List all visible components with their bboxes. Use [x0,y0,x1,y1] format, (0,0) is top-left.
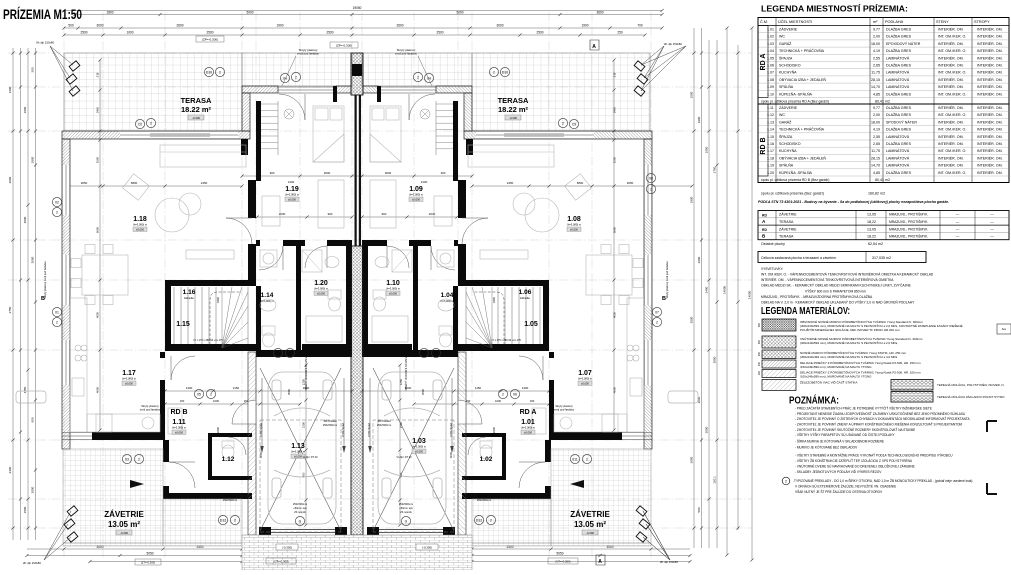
svg-text:STROPY: STROPY [974,20,990,24]
svg-text:TECHNICKÁ + PRÁČOVŇA: TECHNICKÁ + PRÁČOVŇA [779,48,825,53]
svg-text:4400: 4400 [216,296,220,303]
svg-text:RD: RD [762,214,767,218]
svg-text:ZÁVETRIE: ZÁVETRIE [570,510,610,519]
svg-text:(ÚT=-0,300): (ÚT=-0,300) [555,559,570,564]
svg-text:SCHODISKO: SCHODISKO [779,142,801,146]
svg-text:2: 2 [502,393,504,397]
svg-text:SPODOVÝ NÁTER: SPODOVÝ NÁTER [886,120,917,124]
bathroom 1.14 fixtures [260,250,277,267]
svg-text:1000: 1000 [613,156,617,163]
svg-text:Zábradlie: Zábradlie [184,297,195,300]
svg-text:500: 500 [697,507,701,512]
svg-text:DLAŽBA GRES: DLAŽBA GRES [886,170,912,175]
svg-text:(h=3,080) m: (h=3,080) m [172,426,186,430]
svg-text:DLAŽBA GRES: DLAŽBA GRES [886,27,912,32]
svg-text:900: 900 [328,212,333,216]
svg-text:(h=3,080) m: (h=3,080) m [122,377,136,381]
svg-text:2600: 2600 [176,24,183,28]
svg-text:OBRÁTIŤ Zb NOSNÍK 300x25mm: OBRÁTIŤ Zb NOSNÍK 300x25mm [405,356,408,391]
svg-text:(h=3,080) m: (h=3,080) m [261,300,274,303]
svg-text:2600: 2600 [697,256,701,263]
svg-text:2: 2 [210,393,212,397]
svg-text:DLAŽBA GRES: DLAŽBA GRES [886,63,912,68]
svg-text:3750: 3750 [713,166,717,173]
party wall between units [351,53,363,95]
svg-text:RD B: RD B [170,409,187,416]
kitchen counter [70,298,87,432]
svg-text:2100: 2100 [302,421,306,428]
svg-text:INT. OM./KER. O.: INT. OM./KER. O. [938,149,966,153]
svg-text:2: 2 [417,76,419,80]
svg-text:SCHODISKO: SCHODISKO [779,64,801,68]
svg-text:4000: 4000 [23,216,27,223]
svg-text:WC: WC [779,113,785,117]
svg-text:2400: 2400 [492,426,496,433]
RD B unit drawing (left half) [44,46,352,560]
svg-text:06: 06 [513,393,517,397]
downspout markers [66,61,80,96]
svg-text:4,85: 4,85 [873,171,880,175]
svg-text:C0: C0 [138,123,142,127]
svg-text:INTERIÉR. OM.: INTERIÉR. OM. [938,134,964,139]
svg-text:150: 150 [530,399,535,403]
svg-text:RD A: RD A [520,409,537,416]
svg-text:2,00: 2,00 [873,35,880,39]
svg-text:2,65: 2,65 [873,64,880,68]
material swatches [762,319,796,331]
legend room table [758,18,1009,183]
svg-text:INTERIÉR. OM.: INTERIÉR. OM. [938,41,964,46]
svg-text:±0,000: ±0,000 [175,430,183,434]
svg-text:3000: 3000 [705,426,709,433]
svg-text:2: 2 [656,321,658,325]
svg-text:1900: 1900 [697,116,701,123]
garage slope arrows [261,378,263,452]
insulation swatches right [891,380,933,391]
svg-text:0,5% Spád: 0,5% Spád [449,423,453,437]
svg-text:1.13: 1.13 [291,443,305,450]
svg-text:+50mm sps: +50mm sps [399,506,413,510]
svg-text:MRAZUVD., PROTIŠMYK.: MRAZUVD., PROTIŠMYK. [889,219,928,224]
svg-text:3000: 3000 [385,171,392,175]
svg-text:62,54 m2: 62,54 m2 [868,242,883,246]
svg-text:—: — [990,213,994,217]
svg-text:11,75: 11,75 [871,149,880,153]
bathroom 1.20 fixtures [302,250,322,272]
svg-text:INTERIÉR. OM.: INTERIÉR. OM. [938,119,964,124]
svg-text:G: G [405,520,408,524]
svg-text:KÚPEĽŇA -SPÁLŇA: KÚPEĽŇA -SPÁLŇA [779,91,813,96]
svg-text:ŠPAJZA: ŠPAJZA [779,134,793,139]
svg-text:POUŽITÍM MINERÁLNEJ IZOLÁCIE,: POUŽITÍM MINERÁLNEJ IZOLÁCIE, REF ISOVER… [800,327,900,332]
svg-text:0,5% Spád: 0,5% Spád [367,423,371,437]
svg-text:2: 2 [56,321,58,325]
svg-text:- VŠETKY STAVEBNÉ A MONTÁŽNE P: - VŠETKY STAVEBNÉ A MONTÁŽNE PRÁCE VYKON… [795,453,953,458]
svg-text:1250: 1250 [399,378,403,385]
svg-text:- VŠETKY VÝŠKY PARAPETOV SÚ UD: - VŠETKY VÝŠKY PARAPETOV SÚ UDÁVANÉ OD Č… [795,432,895,437]
svg-text:—: — [956,220,960,224]
svg-text:m²: m² [873,20,878,24]
svg-text:2100: 2100 [421,180,428,184]
svg-text:- VŠETKY ŽB KONŠTRUKCIE ZATEPL: - VŠETKY ŽB KONŠTRUKCIE ZATEPLIŤ TEP. IZ… [795,458,913,463]
svg-text:A: A [592,44,596,50]
car outline [268,372,336,524]
svg-text:80,41 m2: 80,41 m2 [875,100,890,104]
svg-text:INTERIÉR. OM.: INTERIÉR. OM. [977,134,1003,139]
svg-text:INTERIÉR. OM.: INTERIÉR. OM. [938,141,964,146]
svg-text:(-0,300): (-0,300) [422,546,432,550]
svg-text:1.16: 1.16 [183,289,196,296]
svg-text:2: 2 [56,211,58,215]
svg-text:-0,300: -0,300 [509,116,517,120]
svg-text:A: A [598,559,602,565]
svg-text:250x500mm: 250x500mm [399,502,413,506]
svg-text:011: 011 [572,458,578,462]
svg-text:14000: 14000 [723,285,727,294]
svg-text:TERASA: TERASA [498,96,529,105]
svg-text:28,15: 28,15 [871,78,880,82]
svg-text:OBÝVACIA IZBA + JEDÁLEŇ: OBÝVACIA IZBA + JEDÁLEŇ [779,78,826,82]
svg-text:2500: 2500 [80,31,87,35]
svg-text:4400: 4400 [492,296,496,303]
svg-text:14,70: 14,70 [871,164,880,168]
svg-text:1.18: 1.18 [133,216,147,223]
svg-text:1000: 1000 [690,91,694,98]
svg-text:2: 2 [219,71,221,75]
svg-text:(h=3,080) m: (h=3,080) m [285,193,299,197]
svg-text:2: 2 [785,479,787,483]
svg-text:KÚPEĽŇA -SPÁLŇA: KÚPEĽŇA -SPÁLŇA [779,170,813,175]
svg-text:TERASA: TERASA [181,96,212,105]
svg-text:INTERIÉR. OM.: INTERIÉR. OM. [938,163,964,168]
dimension lines top [64,10,662,12]
svg-text:—: — [956,213,960,217]
svg-text:LAMINÁTOVÁ: LAMINÁTOVÁ [886,71,910,75]
svg-text:2: 2 [586,458,588,462]
svg-text:G: G [299,520,302,524]
svg-text:2: 2 [150,122,152,126]
svg-text:±0,000: ±0,000 [412,197,420,201]
svg-text:Sev: Sev [1002,327,1007,331]
svg-text:B: B [41,296,45,302]
svg-text:2: 2 [138,458,140,462]
garage cross marking [260,368,341,531]
svg-text:19050: 19050 [353,6,362,10]
svg-text:spolu pl. úžitková prízemia RD: spolu pl. úžitková prízemia RD B (Bez ga… [761,178,829,182]
svg-text:5050: 5050 [146,552,153,556]
svg-text:9,77: 9,77 [873,106,880,110]
svg-text:RD B: RD B [760,137,767,154]
svg-text:INT. OM./KER. O.: INT. OM./KER. O. [938,35,966,39]
svg-text:1.14: 1.14 [261,292,274,299]
svg-text:INTERIÉR. OM.: INTERIÉR. OM. [977,70,1003,75]
svg-text:LAMINÁTOVÁ: LAMINÁTOVÁ [886,149,910,153]
svg-text:—: — [990,235,994,239]
svg-text:1000: 1000 [126,31,133,35]
svg-text:13.05 m²: 13.05 m² [108,520,140,529]
svg-text:±0,000: ±0,000 [524,430,532,434]
svg-text:Č.M.: Č.M. [760,19,768,24]
svg-text:TERASA: TERASA [779,235,794,239]
svg-text:MRAZUVD., PROTIŠMYK.: MRAZUVD., PROTIŠMYK. [889,226,928,231]
svg-text:MRAZUVD., PROTIŠMYK.: MRAZUVD., PROTIŠMYK. [889,212,928,217]
svg-text:-TYPIZOVANÉ PREKLADY - DO 1,0: -TYPIZOVANÉ PREKLADY - DO 1,0 m ŠÍRKY OT… [793,478,972,483]
RD A unit drawing (mirrored copy of RD B) [362,46,670,560]
svg-text:1.06: 1.06 [519,289,532,296]
svg-text:2: 2 [234,519,236,523]
svg-text:5800: 5800 [577,181,584,185]
svg-text:—: — [990,220,994,224]
svg-text:INTERIÉR. OM.: INTERIÉR. OM. [977,84,1003,89]
svg-text:3600: 3600 [596,11,603,15]
svg-text:- ŠÍRKA MURIVA JE KÓTOVANÁ V S: - ŠÍRKA MURIVA JE KÓTOVANÁ V SKLADOBNOM … [795,439,884,444]
svg-text:spolu pl. úžitková prízemia RD: spolu pl. úžitková prízemia RD A (Bez ga… [761,100,829,104]
svg-text:3000: 3000 [96,24,103,28]
svg-text:DLAŽBA GRES: DLAŽBA GRES [886,91,912,96]
svg-text:RD: RD [762,228,767,232]
svg-text:GARÁŽ: GARÁŽ [779,119,792,124]
dining table [82,255,128,295]
svg-text:1.19: 1.19 [285,186,299,193]
svg-text:(300x249x599 mm), MUROVANÉ NA: (300x249x599 mm), MUROVANÉ NA MALTU S PE… [800,340,898,345]
svg-text:1.01: 1.01 [521,419,535,426]
axis grid dash-dot lines [63,12,65,558]
svg-text:3000: 3000 [496,24,503,28]
svg-text:300: 300 [758,339,761,344]
svg-text:TEPELNÁ IZOLÁCIA ZÁKLADOV POĽS: TEPELNÁ IZOLÁCIA ZÁKLADOV POĽStT STYRO [937,395,1005,399]
total area box [758,252,926,263]
svg-text:/100x249x599 mm), MUROVANÉ NA: /100x249x599 mm), MUROVANÉ NA MALTU YTON… [800,374,872,379]
svg-text:PRÍZEMIA M1:50: PRÍZEMIA M1:50 [3,7,82,22]
svg-text:1900: 1900 [276,24,283,28]
terrace sliding door [120,131,238,139]
interior dimension chains [64,185,242,187]
svg-text:zvod pod fasádou: zvod pod fasádou [297,52,320,56]
svg-text:OBÝVACIA IZBA + JEDÁLEŇ: OBÝVACIA IZBA + JEDÁLEŇ [779,156,826,160]
svg-text:2,55: 2,55 [873,135,880,139]
svg-text:1.07: 1.07 [578,370,592,377]
svg-text:1.11: 1.11 [172,419,185,426]
svg-text:Skrytý plastový: Skrytý plastový [141,404,159,408]
svg-text:WC: WC [779,35,785,39]
svg-text:(h=3,080) m: (h=3,080) m [567,223,581,227]
svg-text:2: 2 [289,352,291,356]
svg-text:(ZT=-0,300): (ZT=-0,300) [141,561,155,565]
svg-text:18.22 m²: 18.22 m² [181,105,212,114]
svg-text:INTERIÉR. OM.: INTERIÉR. OM. [938,55,964,60]
svg-text:MRAZUVD., PROTIŠMYK. - MRAZUVZ: MRAZUVD., PROTIŠMYK. - MRAZUVZDORNÁ PROT… [761,294,873,299]
svg-text:INTERIÉR. OM. - VÁPENNOCEMENTO: INTERIÉR. OM. - VÁPENNOCEMENTOVÁ TENKOVR… [761,277,894,282]
svg-text:2500: 2500 [536,31,543,35]
svg-text:SPÁLŇA: SPÁLŇA [779,85,794,89]
svg-text:- ZHOTOVITEĽ JE POVINNÝ SKUTOČ: - ZHOTOVITEĽ JE POVINNÝ SKUTOČNÉ ROZMERY… [795,427,915,432]
svg-text:LAMINÁTOVÁ: LAMINÁTOVÁ [886,78,910,82]
svg-text:INTERIÉR. OM.: INTERIÉR. OM. [977,119,1003,124]
svg-text:(-0,300): (-0,300) [282,546,292,550]
svg-text:17 x 175 x 280,94 +1x 175: 17 x 175 x 280,94 +1x 175 [491,339,521,342]
svg-text:1.10: 1.10 [386,280,400,287]
svg-text:2: 2 [493,71,495,75]
svg-text:—: — [956,235,960,239]
svg-text:2600: 2600 [396,24,403,28]
svg-text:1.20: 1.20 [314,280,328,287]
svg-text:250x500mm: 250x500mm [323,423,337,427]
svg-text:2030: 2030 [429,212,436,216]
svg-text:zvod pod fasádou: zvod pod fasádou [554,408,575,412]
svg-text:100: 100 [758,370,761,375]
svg-text:4050: 4050 [96,311,100,318]
svg-text:1000: 1000 [96,156,100,163]
circled reference markers [135,119,144,128]
svg-text:14000: 14000 [748,290,752,299]
svg-text:LAMINÁTOVÁ: LAMINÁTOVÁ [886,85,910,89]
svg-text:Celková zastavaná plocha s ter: Celková zastavaná plocha s terasami a zá… [761,256,836,260]
svg-text:2: 2 [562,122,564,126]
svg-text:18,22: 18,22 [867,220,876,224]
svg-text:6600: 6600 [613,226,617,233]
svg-text:±0,000: ±0,000 [389,291,397,295]
svg-text:1800: 1800 [31,156,35,163]
svg-text:Ostatné plochy: Ostatné plochy [761,242,785,246]
svg-text:INT. OM./KER. O.: INT. OM./KER. O. [938,71,966,75]
svg-text:GARÁŽ: GARÁŽ [779,41,792,46]
svg-text:(h=3,080) m: (h=3,080) m [386,287,400,291]
svg-text:INTERIÉR. OM.: INTERIÉR. OM. [938,27,964,32]
svg-text:1.17: 1.17 [122,370,136,377]
svg-text:4,19: 4,19 [873,128,880,132]
svg-text:2000: 2000 [690,316,694,323]
svg-text:1800: 1800 [690,196,694,203]
svg-text:INTERIÉR. OM.: INTERIÉR. OM. [977,148,1003,153]
svg-text:(ZP=-0,300): (ZP=-0,300) [202,38,218,42]
svg-text:D10: D10 [502,71,508,75]
svg-text:1.03: 1.03 [412,438,426,445]
svg-text:DLAŽBA GRES: DLAŽBA GRES [886,48,912,53]
svg-text:80,41 m2: 80,41 m2 [875,178,890,182]
svg-text:18,00: 18,00 [871,42,880,46]
svg-text:1.02: 1.02 [480,456,493,463]
svg-text:INT. OM./KER. O. - VÁPENNOCEME: INT. OM./KER. O. - VÁPENNOCEMENTOVÁ TENK… [761,272,934,277]
svg-text:OBRÁTIŤ Zb NOSNÍK 300x25mm: OBRÁTIŤ Zb NOSNÍK 300x25mm [305,356,308,391]
svg-text:RD A: RD A [760,54,767,71]
svg-text:Ok dlp 150x80: Ok dlp 150x80 [36,41,54,45]
svg-text:DLAŽBA GRES: DLAŽBA GRES [886,141,912,146]
svg-text:1.12: 1.12 [222,456,235,463]
svg-text:1400: 1400 [522,386,529,390]
bedroom furniture [252,95,256,97]
svg-text:2500: 2500 [206,31,213,35]
svg-text:TEPELNÁ IZOLÁCIA, POLYSTYRÉN,: TEPELNÁ IZOLÁCIA, POLYSTYRÉN, ISOVER, N [937,382,1004,387]
svg-text:INTERIÉR. OM.: INTERIÉR. OM. [938,63,964,68]
svg-text:C9: C9 [572,123,576,127]
paved driveway (brick) [242,535,472,570]
svg-text:PODLAHA: PODLAHA [885,20,904,24]
svg-text:700: 700 [637,24,643,28]
svg-text:(ZP=-0,300): (ZP=-0,300) [336,44,352,48]
boxed level label top [196,36,224,42]
svg-text:4600: 4600 [96,386,100,393]
svg-text:18,00: 18,00 [871,120,880,124]
svg-text:4050: 4050 [613,311,617,318]
svg-text:3000: 3000 [324,171,331,175]
svg-text:INTERIÉR. OM.: INTERIÉR. OM. [977,127,1003,132]
svg-text:Skrytý plastový: Skrytý plastový [555,404,573,408]
svg-text:±0,000: ±0,000 [581,381,589,385]
svg-text:—: — [956,227,960,231]
svg-text:INTERIÉR. OM.: INTERIÉR. OM. [977,170,1003,175]
svg-text:VÝŠKY 600 mm S PARAPETOM 850 m: VÝŠKY 600 mm S PARAPETOM 850 mm [805,288,866,293]
svg-text:250: 250 [758,351,761,356]
svg-text:INTERIÉR. OM.: INTERIÉR. OM. [977,55,1003,60]
svg-text:DLAŽBA GRES: DLAŽBA GRES [886,112,912,117]
svg-text:2500: 2500 [436,31,443,35]
svg-text:250: 250 [617,31,623,35]
svg-text:(h=3,080) m: (h=3,080) m [291,450,305,454]
svg-text:1.08: 1.08 [567,216,581,223]
svg-text:160,82 m2: 160,82 m2 [868,192,885,196]
svg-text:03: 03 [125,458,129,462]
svg-text:zvod pod fasádou: zvod pod fasádou [140,408,161,412]
svg-text:ZÁVETRIE: ZÁVETRIE [779,213,797,217]
svg-text:200: 200 [31,67,35,72]
svg-text:spolu pl. úžitková prízemia (: spolu pl. úžitková prízemia (Bez garáží) [761,192,824,196]
svg-text:D2: D2 [434,352,438,356]
svg-text:2400: 2400 [216,426,220,433]
wc fixtures [222,445,234,459]
svg-text:0,5% Spád: 0,5% Spád [341,423,345,437]
svg-text:INTERIÉR. OM.: INTERIÉR. OM. [977,141,1003,146]
svg-text:V OKNÁCH SÚ EXTERIÉROVÉ ŽALÚZI: V OKNÁCH SÚ EXTERIÉROVÉ ŽALÚZIE, NEVYUŽI… [795,484,896,489]
svg-text:4,85: 4,85 [873,92,880,96]
svg-text:4,19: 4,19 [873,49,880,53]
svg-text:2: 2 [423,352,425,356]
svg-text:900: 900 [382,212,387,216]
svg-text:2: 2 [650,188,652,192]
svg-text:INTERIÉR. OM.: INTERIÉR. OM. [977,105,1003,110]
svg-text:TECHNICKÁ + PRÁČOVŇA: TECHNICKÁ + PRÁČOVŇA [779,127,825,132]
svg-text:zvod pod fasádou: zvod pod fasádou [395,52,418,56]
svg-text:INTERIÉR. OM.: INTERIÉR. OM. [977,163,1003,168]
svg-text:6000: 6000 [259,451,263,458]
svg-text:ZÁVETRIE: ZÁVETRIE [779,227,797,231]
svg-text:STENY: STENY [936,20,949,24]
svg-text:(h=3,080) m: (h=3,080) m [412,445,426,449]
svg-text:D12: D12 [476,519,482,523]
svg-text:(h=3,080) m: (h=3,080) m [521,426,535,430]
svg-text:Skrytý plastový zvod pod fasád: Skrytý plastový zvod pod fasádou [666,261,669,299]
svg-text:ZÁDVERIE: ZÁDVERIE [779,106,798,110]
svg-text:SPÁLŇA: SPÁLŇA [779,164,794,168]
svg-text:KUCHYŇA: KUCHYŇA [779,71,797,75]
svg-text:D12: D12 [220,519,226,523]
svg-text:01: 01 [55,311,59,315]
svg-text:2: 2 [490,519,492,523]
staircase 1.16 [173,287,175,344]
svg-text:OBKLAD NA V. 2,0 m - KERAMICKÝ: OBKLAD NA V. 2,0 m - KERAMICKÝ OBKLAD UK… [761,300,915,305]
svg-text:TERASA: TERASA [779,220,794,224]
svg-text:EPOXIDOVÝ NÁTER: EPOXIDOVÝ NÁTER [886,42,921,46]
svg-text:INT. OM./KER. O.: INT. OM./KER. O. [938,113,966,117]
svg-text:5050: 5050 [556,552,563,556]
svg-text:- PROJEKTANT NENESIE ŽIADNU ZO: - PROJEKTANT NENESIE ŽIADNU ZODPOVEDNOSŤ… [795,411,966,416]
svg-text:1.04: 1.04 [441,292,454,299]
svg-text:- MURIVO JE KÓTOVANÉ BEZ OBKLA: - MURIVO JE KÓTOVANÉ BEZ OBKLADOV [795,445,858,450]
svg-text:ŽELEZOBETÓN VIAC VIĎ ČASŤ STA: ŽELEZOBETÓN VIAC VIĎ ČASŤ STATIKA [800,380,857,385]
svg-text:LAMINÁTOVÁ: LAMINÁTOVÁ [886,56,910,60]
svg-text:6000: 6000 [449,451,453,458]
svg-text:±0,000: ±0,000 [570,227,578,231]
svg-text:PODĽA STN 73 4301:2021 - Budov: PODĽA STN 73 4301:2021 - Budovy na bývan… [758,200,949,204]
